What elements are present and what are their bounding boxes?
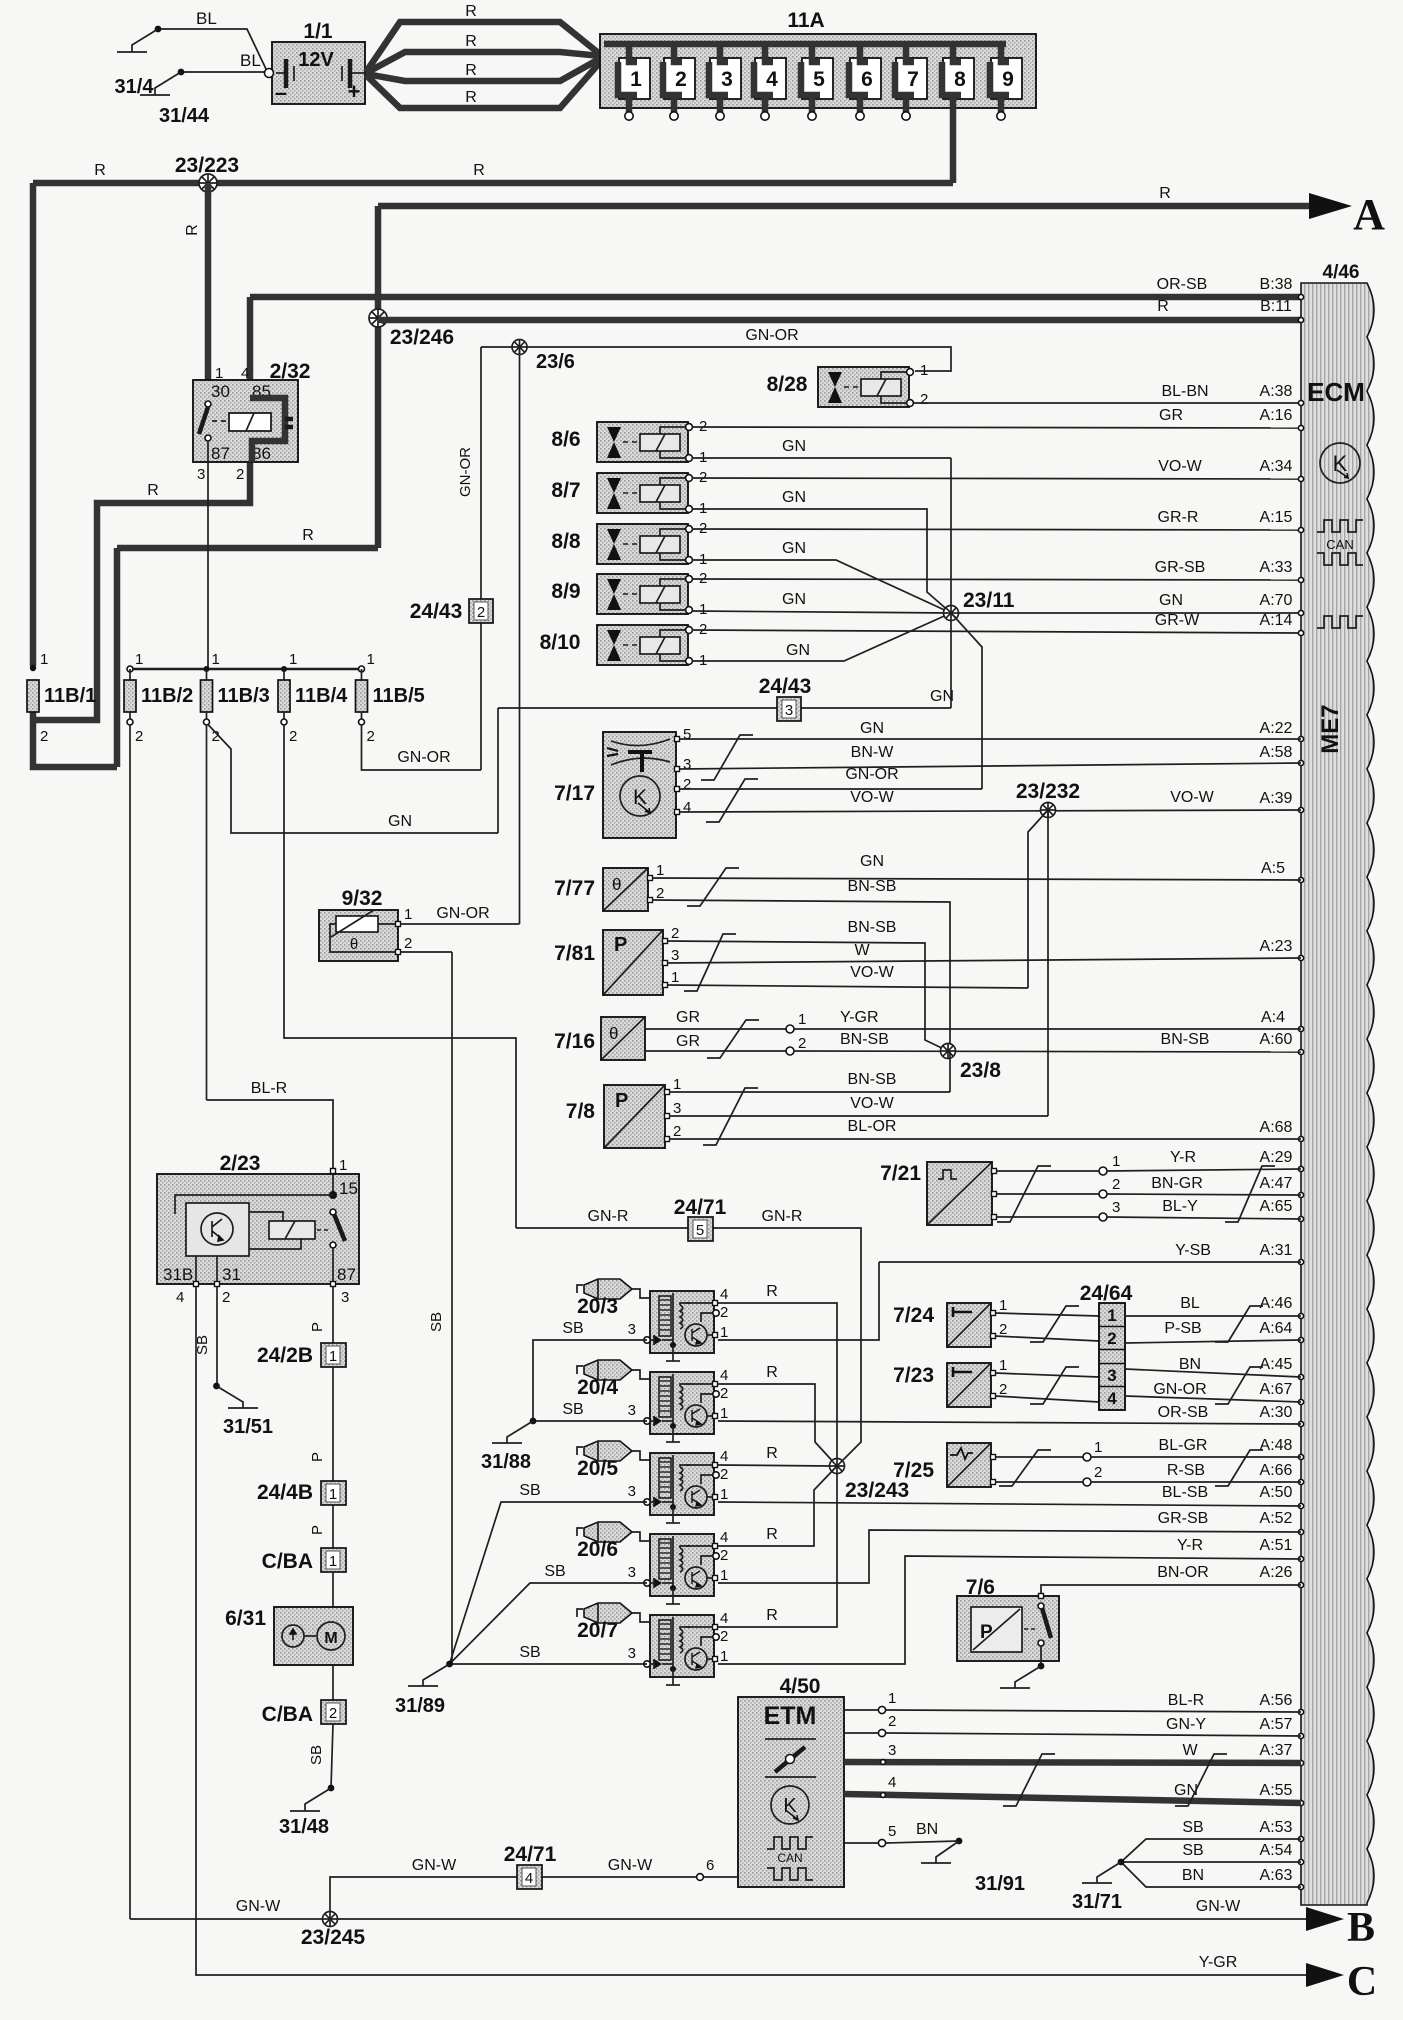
svg-text:23/11: 23/11 bbox=[963, 589, 1015, 612]
svg-text:2: 2 bbox=[367, 728, 375, 745]
svg-text:B:11: B:11 bbox=[1260, 298, 1292, 315]
ETM K circle bbox=[771, 1786, 809, 1824]
svg-text:VO-W: VO-W bbox=[850, 789, 894, 806]
wire battery to fusebox 11A (4 R wires) bbox=[366, 22, 614, 72]
wire BL-R 11B/3 to 2/23 pin1 bbox=[207, 1100, 334, 1171]
svg-text:Y-R: Y-R bbox=[1170, 1149, 1196, 1166]
svg-text:5: 5 bbox=[696, 1222, 704, 1239]
svg-text:A:70: A:70 bbox=[1260, 592, 1293, 609]
svg-text:BN: BN bbox=[916, 1821, 938, 1838]
wire 7/77 pin1 GN to ECM A:5 bbox=[652, 878, 1301, 880]
svg-text:R: R bbox=[465, 33, 477, 50]
wire 11B/2 pin2 GN-W down to 23/245 bbox=[129, 725, 131, 1919]
svg-text:1: 1 bbox=[720, 1405, 728, 1422]
svg-text:2: 2 bbox=[404, 935, 412, 952]
injection valve 8/7 bbox=[597, 473, 688, 513]
ignition coil 20/3 bbox=[577, 1285, 583, 1293]
svg-text:4: 4 bbox=[176, 1289, 184, 1306]
svg-text:2: 2 bbox=[289, 728, 297, 745]
svg-text:GN-OR: GN-OR bbox=[457, 447, 474, 497]
svg-text:VO-W: VO-W bbox=[1158, 458, 1202, 475]
wire fuse8 down to node 23/223 bbox=[950, 95, 957, 183]
svg-text:2: 2 bbox=[683, 776, 691, 793]
wire 11B/4 pin2 GN-R down bbox=[284, 725, 516, 1228]
connector slash 7/21 ECM side bbox=[1225, 1166, 1275, 1222]
wire 7/17 pin3 BN-W to ECM A:58 bbox=[680, 763, 1301, 769]
svg-text:1: 1 bbox=[329, 1348, 337, 1365]
svg-text:BL: BL bbox=[240, 51, 261, 70]
wire 20/7 pin4 R to 23/243 bbox=[718, 1473, 837, 1627]
svg-text:CAN: CAN bbox=[777, 1851, 802, 1865]
svg-text:31/51: 31/51 bbox=[223, 1416, 273, 1438]
wire 23/223 horizontal R bbox=[33, 180, 953, 187]
svg-text:A:30: A:30 bbox=[1260, 1404, 1293, 1421]
svg-text:24/43: 24/43 bbox=[759, 675, 812, 698]
svg-text:A:4: A:4 bbox=[1261, 1009, 1285, 1026]
wire 20/3 pin1 to Y-SB A:31 bbox=[718, 1262, 879, 1340]
svg-text:Y-GR: Y-GR bbox=[840, 1009, 879, 1026]
svg-text:W: W bbox=[854, 942, 870, 959]
wire riser x117 y548-767 bbox=[114, 548, 121, 767]
svg-text:1: 1 bbox=[339, 1157, 347, 1174]
fuse 11B/2 bbox=[127, 666, 133, 672]
svg-text:P: P bbox=[309, 1525, 326, 1535]
connector slash ECM A:46/A:64 bbox=[1215, 1306, 1263, 1342]
svg-text:2: 2 bbox=[1107, 1329, 1116, 1348]
svg-text:2: 2 bbox=[920, 391, 928, 408]
wire A-line R bbox=[378, 203, 1309, 210]
wire 7/24 pin1 to 24/64 pin1 bbox=[995, 1313, 1099, 1316]
wire 20/5 pin1 BL-SB to ECM A:50 bbox=[718, 1502, 1301, 1506]
svg-text:20/4: 20/4 bbox=[577, 1376, 618, 1399]
svg-text:R: R bbox=[766, 1526, 778, 1543]
svg-text:SB: SB bbox=[562, 1320, 583, 1337]
wire 8/8 pin1 GN to node 23/11 bbox=[692, 560, 951, 613]
relay 2/23 internal wiring bbox=[175, 1195, 333, 1214]
ground 31/71 bbox=[1118, 1859, 1125, 1866]
svg-text:7/21: 7/21 bbox=[880, 1162, 921, 1185]
svg-text:BN-SB: BN-SB bbox=[1161, 1031, 1210, 1048]
svg-text:GR-SB: GR-SB bbox=[1155, 559, 1206, 576]
svg-text:BN: BN bbox=[1182, 1867, 1204, 1884]
svg-text:A:64: A:64 bbox=[1260, 1320, 1293, 1337]
svg-text:9: 9 bbox=[1002, 68, 1014, 91]
ground 31/48 bbox=[328, 1785, 335, 1792]
svg-text:7/8: 7/8 bbox=[566, 1100, 596, 1123]
wire left drop to 11B/1 bbox=[30, 183, 37, 666]
ignition coil 20/5 bbox=[577, 1447, 583, 1455]
svg-text:15: 15 bbox=[339, 1179, 358, 1198]
connector slash 7/25 bbox=[999, 1450, 1051, 1486]
ETM pin4 GN thick to ECM A:55 bbox=[844, 1794, 1301, 1803]
svg-text:P: P bbox=[614, 934, 627, 956]
ECM CAN symbol bbox=[1317, 520, 1363, 532]
svg-text:3: 3 bbox=[628, 1483, 636, 1500]
ground 31/89 bbox=[446, 1661, 453, 1668]
wire 8/6 pin1 GN to node 23/11 bbox=[692, 457, 951, 459]
svg-text:31/88: 31/88 bbox=[481, 1451, 531, 1473]
svg-text:A:33: A:33 bbox=[1260, 559, 1293, 576]
connector slash 7/24 bbox=[1030, 1306, 1079, 1342]
svg-text:R: R bbox=[302, 527, 314, 544]
connector slash ETM W/GN ECM side bbox=[1175, 1754, 1227, 1806]
ground 31/4 bbox=[158, 29, 266, 69]
svg-text:1: 1 bbox=[720, 1324, 728, 1341]
svg-text:A:14: A:14 bbox=[1260, 612, 1293, 629]
wire R horizontal x117-x378 y548 bbox=[117, 545, 378, 552]
svg-text:GR: GR bbox=[676, 1009, 700, 1026]
svg-text:23/232: 23/232 bbox=[1016, 780, 1080, 803]
svg-text:A:22: A:22 bbox=[1260, 720, 1293, 737]
svg-text:SB: SB bbox=[562, 1401, 583, 1418]
injection valve 8/10 bbox=[597, 625, 688, 665]
wire 7/23 pin2 to 24/64 pin4 bbox=[995, 1396, 1099, 1402]
svg-text:12V: 12V bbox=[298, 49, 334, 71]
wire B:38 OR-SB to ECM bbox=[250, 294, 1301, 301]
wire Y-SB to ECM A:31 bbox=[879, 1261, 1301, 1263]
svg-text:7/16: 7/16 bbox=[554, 1030, 595, 1053]
svg-text:5: 5 bbox=[683, 726, 691, 743]
svg-text:31/48: 31/48 bbox=[279, 1816, 329, 1838]
svg-text:2/23: 2/23 bbox=[220, 1152, 261, 1175]
svg-text:7/23: 7/23 bbox=[893, 1364, 934, 1387]
svg-text:Y-SB: Y-SB bbox=[1175, 1242, 1211, 1259]
wire B:11 R to ECM bbox=[378, 317, 1301, 324]
svg-text:1: 1 bbox=[999, 1357, 1007, 1374]
svg-text:1: 1 bbox=[1107, 1306, 1116, 1325]
svg-text:R: R bbox=[766, 1607, 778, 1624]
svg-text:4: 4 bbox=[525, 1870, 533, 1887]
svg-text:1: 1 bbox=[1112, 1153, 1120, 1170]
ETM throttle flap icon bbox=[775, 1747, 805, 1772]
wire 8/7 pin2 VO-W to ECM A:34 bbox=[692, 478, 1301, 479]
svg-text:BN-SB: BN-SB bbox=[848, 919, 897, 936]
svg-text:P-SB: P-SB bbox=[1164, 1320, 1201, 1337]
svg-text:2: 2 bbox=[236, 466, 244, 483]
svg-text:23/245: 23/245 bbox=[301, 1926, 366, 1949]
svg-text:1: 1 bbox=[699, 601, 707, 618]
connector slash ECM A:48/A:66 bbox=[1215, 1450, 1263, 1486]
injection valve 8/9 bbox=[597, 574, 688, 614]
wire 11B bus pin1 bbox=[130, 668, 362, 670]
svg-text:9/32: 9/32 bbox=[342, 887, 383, 910]
svg-text:3: 3 bbox=[1112, 1199, 1120, 1216]
wire relay 2/32 pin3 down to 11B bus bbox=[207, 462, 209, 669]
wire BN-SB through node 23/8 to ECM A:60 bbox=[794, 1051, 1301, 1052]
wire 9/32 pin1 GN-OR to 23/6 riser bbox=[400, 923, 520, 925]
svg-text:P: P bbox=[615, 1090, 628, 1112]
svg-text:BN-GR: BN-GR bbox=[1151, 1175, 1203, 1192]
svg-text:P: P bbox=[980, 1622, 993, 1643]
node 23/11 bbox=[944, 606, 959, 621]
ground below 7/6 bbox=[1038, 1663, 1045, 1670]
relay 2/32 thick coil loop 85-86 bbox=[250, 398, 285, 462]
svg-text:23/243: 23/243 bbox=[845, 1479, 909, 1502]
wire 7/81 pin1 VO-W to 23/232 riser bbox=[667, 985, 1028, 988]
svg-text:SB: SB bbox=[428, 1312, 445, 1332]
svg-text:1: 1 bbox=[798, 1011, 806, 1028]
ignition coil 20/6 bbox=[577, 1528, 583, 1536]
wire 7/77 pin2 BN-SB to node 23/8 bbox=[652, 900, 950, 1051]
wire R from relay 2/32 pin2/86 bbox=[36, 462, 250, 720]
svg-text:4: 4 bbox=[720, 1529, 728, 1546]
svg-text:VO-W: VO-W bbox=[850, 964, 894, 981]
svg-text:2: 2 bbox=[1112, 1176, 1120, 1193]
svg-text:A:38: A:38 bbox=[1260, 383, 1293, 400]
svg-text:A:5: A:5 bbox=[1261, 860, 1285, 877]
connector slash 7/16 bbox=[707, 1020, 759, 1058]
svg-text:31/44: 31/44 bbox=[159, 105, 210, 127]
svg-text:A:39: A:39 bbox=[1260, 790, 1293, 807]
svg-text:7/24: 7/24 bbox=[893, 1304, 934, 1327]
svg-text:3: 3 bbox=[1107, 1366, 1116, 1385]
wire GN bus y708 through 24/43-3 bbox=[498, 707, 951, 709]
svg-text:A:65: A:65 bbox=[1260, 1198, 1293, 1215]
svg-text:3: 3 bbox=[628, 1321, 636, 1338]
wire 7/17 pin5 GN to ECM A:22 bbox=[680, 738, 1301, 740]
svg-text:OR-SB: OR-SB bbox=[1157, 276, 1208, 293]
svg-text:BN-SB: BN-SB bbox=[840, 1031, 889, 1048]
svg-text:Y-GR: Y-GR bbox=[1199, 1954, 1238, 1971]
svg-text:GR: GR bbox=[1159, 407, 1183, 424]
svg-text:θ: θ bbox=[609, 1024, 618, 1043]
svg-text:31/91: 31/91 bbox=[975, 1873, 1025, 1895]
svg-text:R: R bbox=[1159, 185, 1171, 202]
svg-text:A:23: A:23 bbox=[1260, 938, 1293, 955]
svg-text:4: 4 bbox=[720, 1286, 728, 1303]
svg-text:A:48: A:48 bbox=[1260, 1437, 1293, 1454]
wire 23/8 down to 7/8 pin1 bbox=[949, 1051, 951, 1092]
svg-text:4/46: 4/46 bbox=[1323, 262, 1360, 283]
svg-text:+: + bbox=[348, 79, 361, 104]
svg-text:1: 1 bbox=[720, 1648, 728, 1665]
svg-text:31/71: 31/71 bbox=[1072, 1891, 1122, 1913]
connector slash 7/81 bbox=[684, 934, 736, 991]
svg-text:3: 3 bbox=[628, 1402, 636, 1419]
svg-text:A:26: A:26 bbox=[1260, 1564, 1293, 1581]
svg-text:GR: GR bbox=[676, 1033, 700, 1050]
svg-text:A:47: A:47 bbox=[1260, 1175, 1293, 1192]
wire ECM A:53 A:54 A:63 to ground 31/71 bbox=[1121, 1839, 1301, 1862]
svg-text:R: R bbox=[147, 482, 159, 499]
svg-text:GN: GN bbox=[388, 813, 412, 830]
wire 11B/5 pin2 GN-OR bbox=[362, 725, 482, 770]
wire GN-OR riser x481 through 24/43-2 bbox=[480, 347, 482, 770]
svg-text:A:58: A:58 bbox=[1260, 744, 1293, 761]
wire SB bus from 9/32 pin2 down to 31/89 junction bbox=[451, 952, 453, 1664]
svg-text:3: 3 bbox=[721, 68, 733, 91]
svg-text:A:31: A:31 bbox=[1260, 1242, 1293, 1259]
svg-text:24/2B: 24/2B bbox=[257, 1344, 313, 1367]
svg-text:SB: SB bbox=[544, 1563, 565, 1580]
wire 2/23 pin3 P chain down bbox=[332, 1287, 334, 1343]
wire P segment 2 bbox=[332, 1505, 334, 1548]
wire 24/64 pin2 P-SB to ECM A:64 bbox=[1125, 1340, 1301, 1343]
svg-text:24/64: 24/64 bbox=[1080, 1282, 1133, 1305]
svg-text:1: 1 bbox=[404, 906, 412, 923]
component 7/17 K circle bbox=[620, 776, 660, 816]
svg-text:SB: SB bbox=[1182, 1819, 1203, 1836]
svg-text:7/77: 7/77 bbox=[554, 877, 595, 900]
svg-text:11B/2: 11B/2 bbox=[141, 685, 193, 707]
node 23/6 bbox=[512, 340, 527, 355]
svg-text:4: 4 bbox=[720, 1448, 728, 1465]
wire GN-W B line bbox=[130, 1918, 1306, 1920]
svg-text:BL-SB: BL-SB bbox=[1162, 1484, 1208, 1501]
wire 7/23 pin1 to 24/64 pin3 bbox=[995, 1373, 1099, 1377]
wire 23/232 to 7/8 pin3 riser bbox=[1047, 810, 1049, 1116]
svg-text:GN: GN bbox=[782, 540, 806, 557]
ignition coil 20/4 bbox=[577, 1366, 583, 1374]
svg-text:C: C bbox=[1347, 1959, 1377, 2005]
wire riser x378 (A-line to 23/246 to R-horizontal) bbox=[375, 206, 382, 548]
svg-text:3: 3 bbox=[197, 466, 205, 483]
svg-text:87: 87 bbox=[211, 444, 230, 463]
svg-text:M: M bbox=[324, 1630, 337, 1647]
svg-text:20/5: 20/5 bbox=[577, 1457, 618, 1480]
svg-text:1: 1 bbox=[671, 969, 679, 986]
svg-text:A:16: A:16 bbox=[1260, 407, 1293, 424]
svg-text:A:66: A:66 bbox=[1260, 1462, 1293, 1479]
svg-text:BL-GR: BL-GR bbox=[1159, 1437, 1208, 1454]
wire 8/7 pin1 GN to node 23/11 bbox=[692, 509, 951, 613]
svg-text:2: 2 bbox=[720, 1547, 728, 1564]
svg-text:SB: SB bbox=[308, 1745, 325, 1765]
wire GN riser x498 to 24/43-3 bus bbox=[497, 708, 499, 833]
svg-text:4: 4 bbox=[720, 1610, 728, 1627]
svg-text:ECM: ECM bbox=[1307, 377, 1365, 407]
wire 7/81 pin3 W to ECM A:23 bbox=[667, 958, 1301, 963]
svg-text:4: 4 bbox=[683, 799, 691, 816]
wire 8/10 pin2 GR-W to ECM A:14 bbox=[692, 630, 1301, 633]
svg-text:4: 4 bbox=[1107, 1389, 1117, 1408]
svg-text:30: 30 bbox=[211, 382, 230, 401]
svg-text:1: 1 bbox=[656, 862, 664, 879]
node 23/243 bbox=[830, 1459, 845, 1474]
svg-text:BN: BN bbox=[1179, 1356, 1201, 1373]
svg-text:GN-R: GN-R bbox=[588, 1208, 629, 1225]
svg-text:GN-W: GN-W bbox=[1196, 1898, 1241, 1915]
svg-text:11B/5: 11B/5 bbox=[373, 685, 425, 707]
wire Y-GR to ECM A:4 bbox=[794, 1028, 1301, 1030]
svg-text:2: 2 bbox=[675, 68, 687, 91]
svg-text:GN-OR: GN-OR bbox=[1153, 1381, 1206, 1398]
svg-text:3: 3 bbox=[628, 1645, 636, 1662]
arrow A bbox=[1309, 193, 1352, 219]
svg-text:VO-W: VO-W bbox=[850, 1095, 894, 1112]
svg-text:24/4B: 24/4B bbox=[257, 1481, 313, 1504]
svg-text:R: R bbox=[465, 62, 477, 79]
svg-text:SB: SB bbox=[1182, 1842, 1203, 1859]
svg-text:11A: 11A bbox=[787, 9, 824, 32]
svg-text:7/17: 7/17 bbox=[554, 782, 595, 805]
svg-text:GN: GN bbox=[786, 642, 810, 659]
wire 7/8 pin2 BL-OR to ECM A:68 bbox=[669, 1138, 1301, 1140]
wire GN-OR y347 to 8/28 bbox=[481, 347, 951, 371]
svg-text:8/6: 8/6 bbox=[551, 428, 580, 451]
wire 7/8 pin3 VO-W to 23/232 riser bbox=[669, 1115, 1048, 1117]
svg-text:3: 3 bbox=[785, 702, 793, 719]
svg-text:BL-R: BL-R bbox=[1168, 1692, 1204, 1709]
wire 23/232 to 7/81 pin1 riser bbox=[1028, 810, 1048, 988]
wire relay 2/32 pin4/85 riser to B:38 bbox=[247, 297, 254, 399]
svg-text:2: 2 bbox=[222, 1289, 230, 1306]
wire BN-OR ECM A:26 to 7/6 bbox=[1041, 1585, 1301, 1598]
wire 23/6 down to 9/32 pin1 bbox=[519, 347, 521, 924]
svg-text:A:56: A:56 bbox=[1260, 1692, 1293, 1709]
svg-text:1: 1 bbox=[630, 68, 642, 91]
wire 7/21 pin1 Y-R to ECM A:29 bbox=[996, 1170, 1099, 1172]
wire 7/25 pin2 to terminal bbox=[995, 1481, 1083, 1483]
wire 7/21 pin3 BL-Y to ECM A:65 bbox=[996, 1216, 1099, 1218]
ETM CAN symbol bbox=[767, 1837, 813, 1849]
arrow B bbox=[1306, 1907, 1344, 1931]
svg-text:A:67: A:67 bbox=[1260, 1381, 1293, 1398]
connector slash ECM A:45/A:67 bbox=[1215, 1367, 1263, 1404]
svg-text:GN: GN bbox=[1174, 1782, 1198, 1799]
injection valve 8/8 bbox=[597, 524, 688, 564]
svg-text:2: 2 bbox=[477, 604, 485, 621]
ignition coil 20/7 bbox=[577, 1609, 583, 1617]
svg-text:8/7: 8/7 bbox=[551, 479, 580, 502]
ETM pin1 BL-R to ECM A:56 bbox=[844, 1709, 886, 1711]
svg-text:A:54: A:54 bbox=[1260, 1842, 1293, 1859]
svg-text:3: 3 bbox=[673, 1100, 681, 1117]
svg-text:θ: θ bbox=[612, 875, 621, 894]
wire 11B/3 pin2 branch BL-R down bbox=[206, 725, 208, 1100]
svg-text:8/9: 8/9 bbox=[551, 580, 580, 603]
wire SB to 20/6 pin3 bbox=[450, 1583, 648, 1664]
wire 20/4 pin1 OR-SB to ECM A:30 bbox=[718, 1421, 1301, 1424]
wire 20/6 pin4 R to 23/243 bbox=[718, 1466, 837, 1546]
svg-text:A:60: A:60 bbox=[1260, 1031, 1293, 1048]
svg-text:1: 1 bbox=[367, 651, 375, 668]
svg-text:23/8: 23/8 bbox=[960, 1059, 1001, 1082]
fuse 11B/4 bbox=[281, 666, 287, 672]
svg-text:8: 8 bbox=[954, 68, 966, 91]
wire 11B/3 pin2 branch GN bbox=[208, 724, 499, 833]
svg-text:C/BA: C/BA bbox=[262, 1550, 313, 1573]
wire P segment bbox=[332, 1367, 334, 1481]
svg-text:R: R bbox=[94, 162, 106, 179]
svg-text:6: 6 bbox=[861, 68, 873, 91]
svg-text:BL: BL bbox=[196, 9, 217, 28]
svg-text:A:37: A:37 bbox=[1260, 1742, 1293, 1759]
wire 24/64 pin3 BN to ECM A:45 bbox=[1125, 1369, 1301, 1377]
svg-text:BL-R: BL-R bbox=[251, 1080, 287, 1097]
svg-text:A:55: A:55 bbox=[1260, 1782, 1293, 1799]
svg-text:1: 1 bbox=[720, 1486, 728, 1503]
svg-text:20/7: 20/7 bbox=[577, 1619, 618, 1642]
svg-text:GN: GN bbox=[860, 720, 884, 737]
svg-text:GN-R: GN-R bbox=[762, 1208, 803, 1225]
relay 2/32 coil bbox=[212, 420, 228, 422]
svg-text:1: 1 bbox=[212, 651, 220, 668]
svg-text:20/3: 20/3 bbox=[577, 1295, 618, 1318]
svg-text:A:51: A:51 bbox=[1260, 1537, 1293, 1554]
fuse 11B/5 bbox=[359, 666, 365, 672]
svg-text:1: 1 bbox=[673, 1076, 681, 1093]
wire 9/32 pin2 SB down bbox=[400, 951, 452, 953]
svg-text:31: 31 bbox=[222, 1265, 241, 1284]
wire 24/64 pin4 GN-OR to ECM A:67 bbox=[1125, 1396, 1301, 1402]
svg-text:7: 7 bbox=[907, 68, 919, 91]
svg-text:1: 1 bbox=[1094, 1439, 1102, 1456]
relay 2/23 switch bbox=[330, 1209, 336, 1215]
svg-text:BN-SB: BN-SB bbox=[848, 1071, 897, 1088]
wire SB 20/3 pin3 to 31/88 riser bbox=[533, 1340, 647, 1421]
svg-text:2: 2 bbox=[999, 1381, 1007, 1398]
